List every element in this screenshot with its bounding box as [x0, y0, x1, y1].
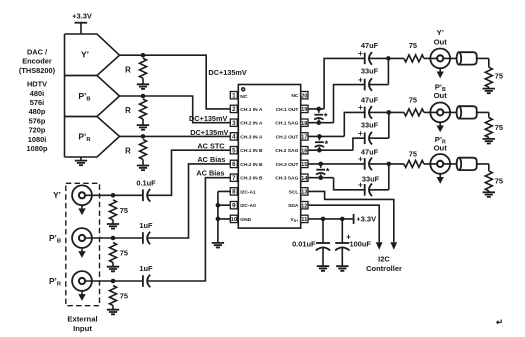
svg-text:CH.1 IN A: CH.1 IN A: [240, 107, 263, 113]
capacitor SAG ch3 (optional, *): [316, 164, 330, 178]
capacitor 1uF (P'B): [139, 221, 153, 244]
svg-text:GND: GND: [240, 217, 251, 223]
wire SCL to I2C controller: [308, 191, 394, 242]
ground load ch2: [483, 139, 495, 144]
BNC output P'B: [430, 82, 450, 132]
wire P'R amp to pin 4: [120, 135, 231, 137]
wire cable to load ch3: [477, 164, 489, 171]
capacitor 0.1uF: [136, 179, 156, 202]
wire cable to load ch2: [477, 112, 489, 117]
ground under amp stack: [75, 157, 87, 165]
svg-text:0.01uF: 0.01uF: [292, 240, 316, 249]
node pin10 gnd: [216, 217, 221, 222]
ground load ch3: [483, 192, 495, 197]
svg-text:Out: Out: [434, 37, 448, 46]
capacitor 100uF: [335, 219, 371, 266]
svg-text:720p: 720p: [29, 126, 46, 135]
svg-text:CH.3 IN B: CH.3 IN B: [240, 176, 263, 182]
resistor 75 (P'B input term): [110, 243, 129, 267]
pin 4 box CH.3 IN A: [230, 133, 263, 141]
svg-text:75: 75: [495, 123, 503, 132]
pin 17 box CH.2 OUT: [276, 133, 308, 141]
svg-text:9: 9: [232, 203, 236, 210]
resistor R (P'B load): [125, 99, 146, 125]
buffer amp P'B: [65, 76, 120, 117]
svg-text:*: *: [324, 112, 328, 122]
svg-text:Y’: Y’: [81, 50, 89, 60]
arrow SCL: [390, 242, 397, 250]
pin 2 box CH.1 IN A: [230, 105, 263, 113]
DAC output bus line: [64, 34, 66, 157]
svg-text:1uF: 1uF: [139, 221, 153, 230]
svg-text:P’R: P’R: [49, 276, 61, 288]
svg-text:+: +: [358, 49, 363, 58]
svg-text:18: 18: [301, 121, 307, 127]
svg-text:5: 5: [232, 148, 236, 155]
svg-text:480i: 480i: [30, 89, 44, 98]
wire BNC P'B to cap: [82, 237, 143, 239]
pin 6 box CH.2 IN B: [230, 160, 263, 168]
node 100uF tap: [340, 217, 345, 222]
resistor 75 load ch1: [485, 67, 503, 88]
coax cable ch3: [457, 158, 477, 170]
svg-text:Y’: Y’: [437, 28, 444, 37]
node Y' input: [111, 193, 116, 198]
svg-text:75: 75: [495, 72, 503, 81]
wire 0.1uF to pin 5: [147, 150, 231, 195]
svg-text:11: 11: [301, 217, 307, 223]
svg-text:17: 17: [301, 135, 307, 141]
svg-text:CH.2 SAG: CH.2 SAG: [275, 148, 298, 154]
node ch2 output: [387, 110, 392, 115]
wire pin15 CH.3 OUT: [308, 163, 365, 165]
svg-text:SDA: SDA: [288, 203, 299, 209]
svg-text:+: +: [358, 103, 363, 112]
node pin16: [317, 148, 322, 153]
wire 47uF to node ch2: [369, 111, 389, 113]
wire pin14 CH.3 SAG: [308, 178, 365, 190]
external input dashed enclosure: [66, 183, 100, 305]
svg-text:19: 19: [301, 107, 307, 113]
node Y' output: [141, 53, 146, 58]
capacitor 1uF (P'R): [139, 264, 153, 287]
svg-text:P’R: P’R: [78, 131, 91, 143]
svg-text:480p: 480p: [29, 107, 46, 116]
svg-text:12: 12: [301, 204, 307, 210]
pin 14 box CH.3 SAG: [275, 174, 308, 182]
wire pin11 Vs+ supply: [308, 218, 354, 220]
svg-text:CH.1 IN B: CH.1 IN B: [240, 148, 263, 154]
svg-text:13: 13: [301, 190, 307, 196]
svg-text:16: 16: [301, 149, 307, 155]
svg-text:↵: ↵: [496, 317, 503, 327]
BNC output Y': [430, 28, 450, 78]
ground (P'B load R): [137, 125, 149, 130]
svg-text:1: 1: [232, 93, 236, 100]
svg-text:576i: 576i: [30, 98, 44, 107]
svg-text:R: R: [125, 106, 131, 115]
pin 13 box SCL: [289, 188, 308, 196]
capacitor 47uF ch3: [358, 148, 378, 171]
pin 10 box GND: [230, 215, 251, 223]
svg-text:(THS8200): (THS8200): [19, 66, 56, 75]
node 0.01uF tap: [321, 217, 326, 222]
svg-text:75: 75: [120, 249, 128, 258]
power +3.3V supply (pin11): [354, 214, 377, 224]
svg-text:R: R: [125, 65, 131, 74]
svg-text:0.1uF: 0.1uF: [136, 179, 156, 188]
wire SDA to I2C controller: [308, 205, 379, 242]
svg-text:1080i: 1080i: [28, 135, 47, 144]
svg-text:CH.1 SAG: CH.1 SAG: [275, 121, 298, 127]
ground 100uF: [336, 266, 348, 271]
ground (P'R load R): [137, 166, 149, 171]
capacitor SAG ch1 (optional, *): [314, 109, 328, 123]
wire P'B amp to pin 3: [120, 96, 231, 123]
DAC / Encoder source label: [19, 47, 56, 74]
svg-text:Encoder: Encoder: [22, 57, 52, 66]
resistor R (Y' load): [125, 58, 146, 84]
svg-text:External: External: [67, 314, 97, 323]
svg-text:CH.3 OUT: CH.3 OUT: [276, 162, 299, 168]
capacitor 33uF ch2: [358, 120, 378, 144]
wire 33uF to node ch3: [369, 164, 389, 190]
svg-text:CH.2 IN B: CH.2 IN B: [240, 162, 263, 168]
svg-text:47uF: 47uF: [361, 41, 379, 50]
svg-text:20: 20: [301, 94, 307, 100]
svg-text:1080p: 1080p: [27, 144, 48, 153]
node pin19: [317, 107, 322, 112]
svg-text:Out: Out: [434, 144, 448, 153]
node P'B output: [141, 94, 146, 99]
coax cable ch1: [457, 52, 477, 64]
svg-text:I2C: I2C: [378, 254, 390, 263]
svg-text:75: 75: [409, 150, 417, 159]
wire Y' amp to pin 2: [120, 55, 231, 109]
wire 33uF to node ch1: [369, 58, 389, 84]
svg-text:DC+135mV: DC+135mV: [208, 68, 246, 77]
wire pin16 CH.2 SAG: [308, 138, 365, 150]
capacitor 0.01uF: [292, 219, 330, 266]
pin 16 box CH.2 SAG: [275, 147, 308, 155]
resistor 75 series ch3: [389, 150, 457, 168]
wire 47uF to node ch1: [369, 57, 389, 59]
svg-text:+: +: [358, 75, 363, 84]
svg-text:*: *: [325, 139, 329, 149]
buffer amp P'R: [65, 117, 120, 158]
resistor 75 series ch2: [389, 95, 457, 116]
svg-text:P’B: P’B: [78, 91, 90, 103]
svg-text:CH.3 SAG: CH.3 SAG: [275, 176, 298, 182]
ground (P'R input term): [107, 310, 119, 315]
svg-text:75: 75: [120, 292, 128, 301]
wire cable to load ch1: [477, 58, 489, 67]
resistor 75 load ch3: [485, 171, 503, 192]
svg-text:14: 14: [301, 176, 308, 182]
capacitor SAG ch2 (optional, *): [315, 136, 329, 150]
svg-text:+3.3V: +3.3V: [72, 11, 92, 20]
ground I2C address: [212, 243, 224, 248]
svg-text:+3.3V: +3.3V: [356, 215, 376, 224]
BNC input connector: [72, 228, 92, 258]
ground (Y' load R): [137, 84, 149, 89]
svg-text:75: 75: [409, 95, 417, 104]
svg-text:2: 2: [232, 106, 236, 113]
pin 12 box SDA: [288, 202, 308, 210]
svg-text:+: +: [358, 181, 363, 190]
wire pins 8,9,10 to ground: [218, 191, 230, 243]
pin 11 box Vs+: [290, 215, 308, 223]
svg-text:1uF: 1uF: [139, 264, 153, 273]
coax cable ch2: [457, 106, 477, 118]
resistor 75 load ch2: [485, 118, 503, 139]
node pin14: [318, 175, 323, 180]
svg-text:R: R: [125, 147, 131, 156]
wire pin18 CH.1 SAG: [308, 85, 365, 123]
node pin17: [317, 134, 322, 139]
svg-text:3: 3: [232, 120, 236, 127]
svg-text:Out: Out: [434, 91, 448, 100]
svg-text:AC Bias: AC Bias: [196, 168, 224, 177]
svg-text:47uF: 47uF: [361, 95, 379, 104]
svg-text:75: 75: [495, 177, 503, 186]
svg-text:Controller: Controller: [366, 264, 402, 273]
pin 8 box I2C-A1: [230, 188, 256, 196]
node P'R output: [141, 134, 146, 139]
svg-text:I2C-A0: I2C-A0: [240, 203, 256, 209]
pin 15 box CH.3 OUT: [276, 160, 308, 168]
BNC input connector: [72, 271, 92, 301]
pin 7 box CH.3 IN B: [230, 174, 263, 182]
ground 0.01uF: [317, 266, 329, 271]
buffer amp Y': [65, 34, 120, 76]
svg-text:AC STC: AC STC: [197, 141, 225, 150]
svg-text:576p: 576p: [29, 116, 46, 125]
node ch1 output: [386, 56, 391, 61]
wire 1uF to pin 6: [147, 164, 231, 238]
svg-text:VS+: VS+: [290, 217, 299, 223]
op-amp U1 THS7303 body: [238, 85, 300, 229]
pin 1 box NC: [230, 92, 248, 101]
ground (Y' input term): [107, 224, 119, 229]
svg-text:SCL: SCL: [289, 189, 299, 195]
node P'B input: [111, 236, 116, 241]
resistor 75 series ch1: [388, 41, 456, 62]
BNC input connector: [72, 185, 92, 215]
node P'R input: [111, 279, 116, 284]
svg-text:15: 15: [301, 162, 307, 168]
wire 1uF to pin 7: [147, 178, 231, 281]
resistor R (P'R load): [125, 139, 146, 165]
node pin18: [317, 120, 322, 125]
svg-text:Input: Input: [73, 324, 92, 333]
capacitor 33uF ch3: [358, 174, 379, 196]
svg-text:DC+135mV: DC+135mV: [190, 128, 228, 137]
wire pin19 CH.1 OUT: [308, 58, 365, 109]
svg-text:47uF: 47uF: [361, 148, 379, 157]
svg-text:33uF: 33uF: [361, 120, 379, 129]
svg-text:CH.3 IN A: CH.3 IN A: [240, 134, 263, 140]
svg-text:DAC /: DAC /: [27, 47, 47, 56]
node ch3 output: [387, 162, 392, 167]
pin 18 box CH.1 SAG: [275, 119, 308, 127]
wire 33uF to node ch2: [369, 112, 389, 138]
ground load ch1: [483, 89, 495, 94]
svg-text:P’B: P’B: [49, 233, 61, 245]
svg-text:7: 7: [232, 175, 236, 182]
capacitor 47uF ch2: [358, 95, 378, 118]
BNC output P'R: [430, 135, 450, 184]
svg-text:Y’: Y’: [53, 190, 61, 200]
pin 20 box NC: [291, 92, 308, 100]
capacitor 33uF ch1: [358, 67, 378, 91]
pin 19 box CH.1 OUT: [276, 105, 308, 113]
wire BNC Y' to cap: [82, 194, 143, 196]
svg-text:CH.2 OUT: CH.2 OUT: [276, 134, 299, 140]
svg-text:6: 6: [232, 161, 236, 168]
svg-text:NC: NC: [291, 93, 299, 99]
svg-text:10: 10: [231, 217, 237, 223]
pin 1 indicator dot: [242, 88, 245, 91]
svg-text:+: +: [358, 155, 363, 164]
node pin9 gnd: [216, 203, 221, 208]
arrow SDA: [376, 242, 383, 250]
pin 5 box CH.1 IN B: [230, 147, 263, 155]
resistor 75 (P'R input term): [110, 286, 129, 310]
HDTV formats label: [27, 80, 48, 153]
svg-text:HDTV: HDTV: [27, 80, 47, 89]
wire BNC P'R to cap: [82, 280, 143, 282]
svg-text:AC Bias: AC Bias: [197, 155, 225, 164]
svg-text:CH.2 IN A: CH.2 IN A: [240, 121, 263, 127]
svg-text:+: +: [358, 129, 363, 138]
svg-text:75: 75: [409, 41, 417, 50]
svg-text:CH.1 OUT: CH.1 OUT: [276, 107, 299, 113]
I2C Controller label: [366, 254, 402, 273]
pin 9 box I2C-A0: [230, 202, 256, 210]
node pin15: [318, 162, 323, 167]
svg-text:I2C-A1: I2C-A1: [240, 189, 256, 195]
svg-text:DC+135mV: DC+135mV: [189, 114, 227, 123]
power +3.3V supply label (top-left): [72, 11, 92, 34]
svg-text:8: 8: [232, 189, 236, 196]
capacitor 47uF ch1: [358, 41, 378, 65]
svg-text:33uF: 33uF: [361, 67, 379, 76]
svg-text:75: 75: [120, 206, 128, 215]
svg-text:*: *: [326, 167, 330, 177]
ground (P'B input term): [107, 267, 119, 272]
svg-text:33uF: 33uF: [362, 174, 380, 183]
resistor 75 (Y' input term): [110, 200, 129, 224]
svg-text:4: 4: [232, 134, 236, 141]
pin 3 box CH.2 IN A: [230, 119, 263, 127]
wire pin17 CH.2 OUT: [308, 112, 365, 136]
svg-text:100uF: 100uF: [350, 240, 372, 249]
wire 47uF to node ch3: [369, 163, 389, 165]
svg-text:NC: NC: [240, 94, 248, 100]
